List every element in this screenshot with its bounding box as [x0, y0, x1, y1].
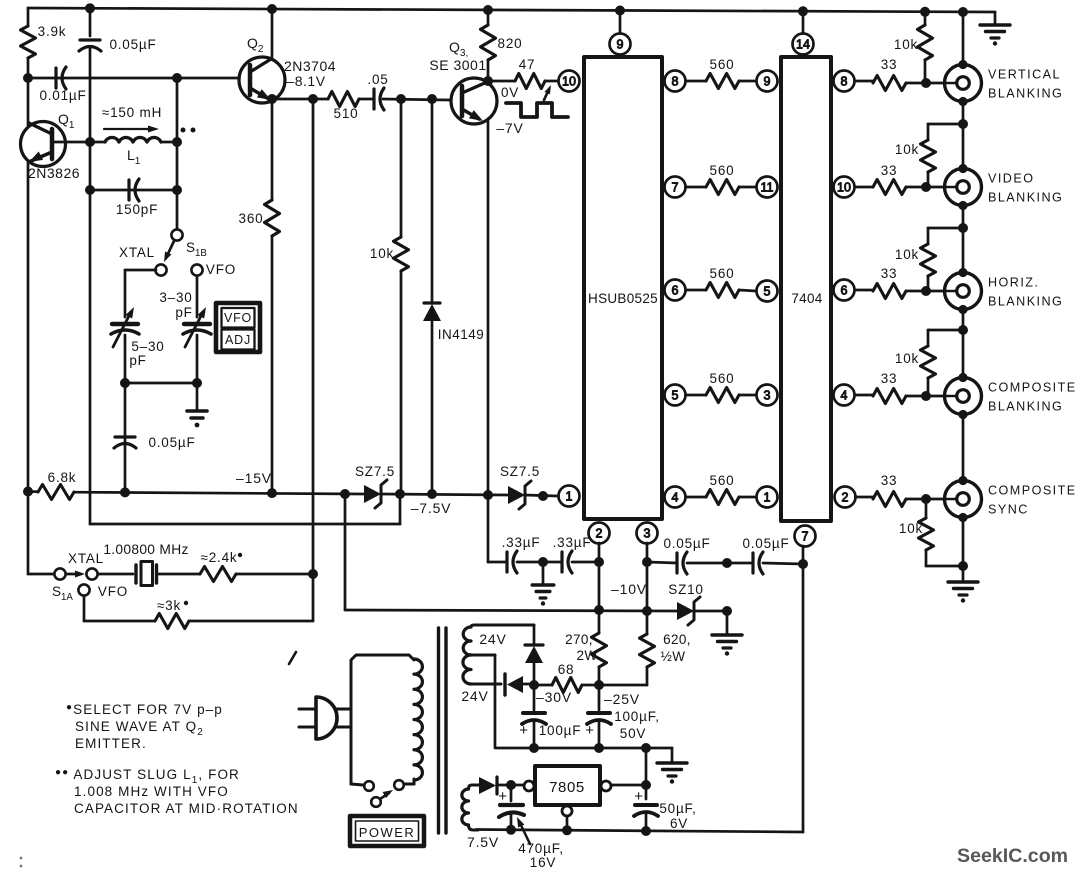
svg-text:1.008 MHz WITH VFO: 1.008 MHz WITH VFO [74, 784, 229, 799]
wire x646 column [645, 748, 648, 799]
pin 7 7404 bottom [795, 526, 816, 547]
pin 4 7404 [834, 385, 855, 406]
wire pin2 column [598, 543, 601, 633]
svg-text:HORIZ.: HORIZ. [988, 276, 1039, 290]
svg-text:10k: 10k [895, 351, 919, 366]
wire bnc chain 2-3 [962, 205, 965, 272]
svg-text:CAPACITOR AT MID·ROTATION: CAPACITOR AT MID·ROTATION [74, 801, 299, 816]
wire power line y610 [345, 494, 677, 611]
svg-text:10: 10 [562, 75, 576, 89]
svg-text:6: 6 [672, 284, 679, 298]
svg-text:–8.1V: –8.1V [286, 73, 325, 89]
svg-text:3: 3 [644, 527, 651, 541]
junction 150pF right [172, 185, 182, 195]
junction rail748 x534 [529, 743, 539, 753]
IC U2 7404 [781, 57, 831, 521]
IC U1 HSUB0525 [584, 57, 662, 519]
junction rail830 x646 [641, 826, 651, 836]
wire pin9 stub [619, 11, 622, 34]
svg-text:10k: 10k [894, 37, 918, 52]
junction 150pF left [85, 185, 95, 195]
wire Q1 emitter down [27, 162, 30, 492]
pin 2 HSUB bottom [589, 523, 610, 544]
waveform annotation [496, 85, 568, 136]
pin 6 HSUB [665, 280, 686, 301]
junction y610 x599 [594, 605, 604, 615]
svg-text:BLANKING: BLANKING [988, 295, 1063, 309]
svg-text:7: 7 [802, 530, 809, 544]
wire left to S1A [28, 492, 54, 575]
svg-text:½W: ½W [661, 649, 686, 664]
svg-text:2: 2 [842, 491, 849, 505]
wire pin3 column [646, 543, 649, 634]
resistor 33 row2 [856, 163, 945, 195]
wire Q2 collector [271, 9, 274, 58]
svg-text:9: 9 [617, 38, 624, 52]
resistor 33 row4 [856, 371, 945, 404]
wire x125 down [124, 383, 127, 492]
svg-text:0.01µF: 0.01µF [39, 88, 86, 103]
svg-text:–7.5V: –7.5V [411, 500, 452, 516]
svg-text:VFO: VFO [224, 311, 252, 325]
connector BNC COMPOSITE BLANKING [945, 373, 1077, 419]
wire VFO sw down [196, 276, 199, 317]
junction rail748 x646 [641, 743, 651, 753]
svg-text:16V: 16V [530, 855, 556, 870]
pin 10 HSUB0525 [559, 71, 580, 92]
wire pin14 stub [802, 11, 805, 33]
svg-text:7.5V: 7.5V [467, 834, 499, 850]
wire Q3 emitter [487, 119, 490, 495]
resistor 560 row4 [686, 371, 756, 403]
label -15V [236, 470, 272, 486]
zener SZ7.5 first [355, 464, 395, 508]
pin 5 HSUB [665, 385, 686, 406]
svg-text:BLANKING: BLANKING [988, 87, 1063, 101]
ground under .33uF [532, 562, 554, 606]
capacitor 50uF [634, 788, 697, 831]
svg-text:5–30: 5–30 [131, 339, 164, 354]
junction y99 x313 [308, 94, 318, 104]
junction -25V node [594, 680, 604, 690]
wire Q2 emitter node [271, 99, 274, 200]
svg-text:14: 14 [796, 38, 810, 52]
pin 3 7404 [757, 385, 778, 406]
wire -15V rail [28, 492, 364, 495]
svg-text:4: 4 [672, 491, 679, 505]
svg-text:50µF,: 50µF, [659, 801, 696, 816]
svg-text:VFO: VFO [98, 584, 128, 599]
junction 470uF [506, 780, 516, 790]
plug AC [299, 697, 351, 739]
wire 47 line [488, 80, 558, 83]
svg-text:5: 5 [672, 389, 679, 403]
svg-text:470µF,: 470µF, [518, 841, 564, 856]
junction 7805 out [641, 780, 651, 790]
svg-text:5: 5 [764, 285, 771, 299]
wire 68 to 620 [599, 684, 647, 687]
svg-text:SZ10: SZ10 [668, 582, 703, 597]
junction 10k out3 top [958, 223, 968, 233]
wire SZ10 to gnd [694, 611, 727, 634]
pin 9 HSUB top [610, 34, 631, 55]
resistor 3k [155, 598, 313, 629]
wire 3.9k to node [27, 58, 30, 78]
resistor 33 row5 [856, 473, 945, 507]
wire x401 down [400, 99, 403, 237]
transistor Q3 [429, 39, 497, 124]
svg-text:10k: 10k [895, 142, 919, 157]
connector BNC VIDEO BLANKING [945, 164, 1064, 210]
switch S1B [119, 229, 236, 277]
capacitor .33uF second [543, 535, 599, 573]
svg-text:IN4149: IN4149 [438, 327, 485, 342]
svg-text:.33µF: .33µF [502, 535, 541, 550]
svg-text:560: 560 [710, 57, 735, 72]
capacitor 100uF b [585, 685, 660, 748]
svg-text:0.05µF: 0.05µF [742, 536, 789, 551]
svg-text:0.05µF: 0.05µF [109, 37, 156, 52]
svg-text:8: 8 [672, 75, 679, 89]
pin 11 7404 [757, 177, 778, 198]
transformer secondary 7.5V [462, 785, 499, 850]
svg-text:24V: 24V [479, 631, 506, 647]
resistor 6.8k [38, 470, 76, 500]
svg-text:1.00800 MHz: 1.00800 MHz [103, 542, 188, 557]
resistor 510 [328, 92, 359, 122]
svg-text:BLANKING: BLANKING [988, 191, 1063, 205]
svg-text:68: 68 [558, 662, 575, 677]
transistor Q2 [239, 35, 336, 103]
svg-text:2N3704: 2N3704 [284, 58, 336, 74]
capacitor 0.05uF top [79, 37, 157, 52]
svg-text:360: 360 [239, 211, 264, 226]
ground below composite sync [948, 582, 978, 603]
capacitor 0.05uF a [647, 536, 727, 574]
wire Q3 820 top [487, 10, 490, 25]
svg-text:3–30: 3–30 [159, 290, 192, 305]
svg-text:+: + [498, 788, 508, 805]
svg-text:–7V: –7V [496, 120, 523, 136]
resistor 820 [481, 25, 523, 60]
resistor 10k out5 [899, 499, 963, 566]
wire x177 down [176, 78, 179, 229]
svg-text:≈3k: ≈3k [157, 598, 181, 613]
resistor 33 row3 [856, 266, 945, 299]
svg-text:9: 9 [764, 75, 771, 89]
pin 8 HSUB [665, 71, 686, 92]
svg-text:6V: 6V [670, 816, 688, 831]
junction rail830 x567 [562, 825, 572, 835]
svg-text:10k: 10k [895, 247, 919, 262]
svg-text:7805: 7805 [549, 779, 585, 796]
junction rail x28 [23, 487, 33, 497]
pin 7 HSUB [665, 177, 686, 198]
wire IN4149 to rail [431, 321, 434, 494]
junction varcap left [120, 378, 130, 388]
capacitor 0.05uF mid [114, 435, 196, 450]
svg-text:+: + [519, 722, 529, 739]
wire y99 [272, 99, 449, 100]
junction x313 y574 [308, 569, 318, 579]
label -25V [604, 691, 640, 707]
wire rail after zener1 [381, 494, 508, 495]
capacitor 150pF [90, 179, 177, 217]
svg-text:+: + [585, 722, 595, 739]
wire rail to pin1 [525, 495, 557, 496]
wire pin7 column [802, 546, 805, 832]
diode rect top [525, 625, 543, 685]
inductor L1 [90, 137, 177, 167]
pin 3 HSUB bottom [637, 523, 658, 544]
svg-text:33: 33 [881, 163, 898, 178]
junction rail x345 [340, 489, 350, 499]
svg-text:3.9k: 3.9k [38, 24, 67, 39]
svg-text:VIDEO: VIDEO [988, 172, 1034, 186]
junction top rail x925 [920, 7, 930, 17]
svg-text:VERTICAL: VERTICAL [988, 68, 1061, 82]
label 150mH [102, 105, 162, 133]
transistor Q1 [21, 111, 91, 181]
diode rect left [505, 674, 534, 695]
resistor 270 2W [565, 632, 606, 685]
resistor 10k out3 [895, 228, 963, 291]
svg-text:33: 33 [881, 57, 898, 72]
mark dots near L1 [181, 128, 196, 133]
svg-text:7: 7 [672, 181, 679, 195]
junction top rail x90 [85, 3, 95, 13]
resistor 560 row3 [686, 266, 756, 298]
svg-text:1: 1 [566, 490, 573, 504]
svg-text:COMPOSITE: COMPOSITE [988, 484, 1077, 498]
svg-text:–10V: –10V [611, 581, 647, 597]
svg-text:6.8k: 6.8k [48, 470, 77, 485]
label -10V [611, 581, 647, 597]
junction 10k out5 [958, 561, 968, 571]
wire 820 to collector [487, 60, 490, 83]
connector BNC COMPOSITE SYNC [945, 476, 1077, 522]
svg-text:33: 33 [881, 266, 898, 281]
junction 33 row5 [921, 494, 931, 504]
junction 0.05 caps mid [722, 558, 732, 568]
junction rail x432 [427, 489, 437, 499]
svg-text:560: 560 [710, 473, 735, 488]
wire bnc chain 3-4 [962, 309, 965, 377]
junction rail x125 [120, 487, 130, 497]
wire Q3em to cap line [488, 495, 507, 562]
wire top power rail [28, 8, 995, 12]
svg-text:POWER: POWER [359, 825, 416, 840]
svg-text:≈150 mH: ≈150 mH [102, 105, 162, 120]
crystal Y1 [98, 542, 200, 586]
svg-text:+: + [634, 788, 644, 805]
svg-text:–30V: –30V [536, 689, 572, 705]
svg-text:0.05µF: 0.05µF [148, 435, 195, 450]
node Q1 base-bias junction [23, 73, 33, 83]
junction top rail x963 [958, 7, 968, 17]
switch S1A [52, 551, 128, 603]
watermark SeekIC.com [957, 845, 1068, 867]
junction top rail x620 [615, 6, 625, 16]
wire left column upper [27, 8, 30, 26]
wire bnc chain 4-5 [962, 414, 965, 480]
junction Q3 collector [483, 76, 493, 86]
resistor 10k mid [370, 237, 409, 271]
connector BNC VERTICAL BLANKING [945, 60, 1064, 106]
svg-text:33: 33 [881, 473, 898, 488]
ground top right [980, 12, 1010, 46]
svg-text:2N3826: 2N3826 [28, 165, 80, 181]
junction -30V [529, 680, 539, 690]
pin 4 HSUB [665, 487, 686, 508]
svg-text:2: 2 [596, 527, 603, 541]
resistor 3.9k [21, 24, 67, 58]
pin 9 7404 [757, 71, 778, 92]
svg-text:560: 560 [710, 266, 735, 281]
pin 5 7404 [757, 281, 778, 302]
svg-text:6: 6 [841, 284, 848, 298]
junction y610 x647 [642, 606, 652, 616]
wire x432 down [431, 99, 434, 302]
wire 7805 out [612, 784, 646, 787]
wire x28 to Q1 collector [27, 78, 30, 126]
pin 14 7404 top [793, 34, 814, 55]
svg-text:3: 3 [764, 389, 771, 403]
svg-text:SZ7.5: SZ7.5 [500, 464, 540, 479]
note adjust [55, 767, 299, 816]
svg-text:VFO: VFO [206, 262, 236, 277]
svg-text:EMITTER.: EMITTER. [75, 736, 147, 751]
junction SZ10 top [722, 606, 732, 616]
capacitor .33uF first [502, 535, 541, 573]
svg-text:150pF: 150pF [116, 202, 158, 217]
svg-text:47: 47 [519, 57, 536, 72]
svg-text:0.05µF: 0.05µF [663, 536, 710, 551]
junction 10k out4 top [958, 325, 968, 335]
resistor 560 row1 [686, 57, 756, 89]
mark specks [20, 857, 23, 868]
junction pin7 cap wire [798, 559, 808, 569]
svg-text:.05: .05 [367, 72, 388, 87]
wire 10k to rail [400, 271, 403, 494]
regulator 7805 [524, 766, 611, 830]
junction y99 x432 [427, 94, 437, 104]
svg-text:–15V: –15V [236, 470, 272, 486]
pin 1 HSUB0525 [559, 486, 580, 507]
junction rail x488 [483, 490, 493, 500]
junction varcap right [192, 378, 202, 388]
svg-text:●SELECT FOR 7V p–p: ●SELECT FOR 7V p–p [66, 702, 223, 717]
junction Q2 emitter [267, 94, 277, 104]
label box VFO ADJ [216, 303, 260, 352]
wire XTAL sw to varcap [125, 270, 156, 317]
zener SZ10 [668, 582, 703, 625]
junction y99 x401 [396, 94, 406, 104]
wire bnc chain 1-2 [962, 101, 965, 168]
svg-text:7404: 7404 [791, 291, 822, 306]
wire bnc chain top [962, 12, 965, 64]
mark tick [289, 652, 296, 664]
svg-text:100µF,: 100µF, [614, 709, 660, 724]
junction top rail x488 [483, 5, 493, 15]
svg-text:10k: 10k [370, 246, 394, 261]
junction 33 row1 [921, 78, 931, 88]
svg-text:4: 4 [841, 389, 848, 403]
resistor 560 row5 [686, 473, 756, 505]
pin 10 7404 [834, 177, 855, 198]
pin 8 7404 [834, 71, 855, 92]
junction y78 x177 [172, 73, 182, 83]
zener SZ7.5 second [500, 464, 540, 509]
svg-text:0V: 0V [501, 85, 519, 100]
diode IN4149 [423, 303, 484, 342]
junction caps ground [538, 557, 548, 567]
pin 2 7404 [835, 487, 856, 508]
svg-text:SYNC: SYNC [988, 503, 1029, 517]
resistor 10k out1 [894, 12, 933, 83]
diode rect 7.5V [479, 777, 523, 794]
connector BNC HORIZ. BLANKING [945, 268, 1064, 314]
variable capacitor 3-30pF [159, 290, 211, 383]
svg-text:≈2.4k: ≈2.4k [201, 550, 238, 565]
svg-text:560: 560 [710, 163, 735, 178]
svg-text:2W: 2W [576, 648, 597, 663]
switch power [364, 780, 404, 807]
junction top rail x272 [267, 4, 277, 14]
svg-text:24V: 24V [461, 688, 488, 704]
capacitor .05 [367, 72, 388, 110]
wire return line y524 [90, 494, 400, 524]
transformer core [439, 628, 447, 833]
transformer primary [351, 655, 422, 785]
junction rail748 x599 [594, 743, 604, 753]
svg-text:33: 33 [881, 371, 898, 386]
wire gnd rail y748 [496, 748, 672, 762]
transformer secondary 24V [461, 625, 534, 748]
svg-text:pF: pF [129, 353, 146, 368]
junction rail830 x511 [506, 825, 516, 835]
wire bottom rail y830 [476, 830, 803, 833]
junction pin3 cap wire [642, 557, 652, 567]
resistor 10k out2 [895, 124, 963, 187]
capacitor 0.01uF [39, 67, 86, 103]
svg-text:10: 10 [837, 181, 851, 195]
junction 33 row4 [921, 391, 931, 401]
label POWER box [350, 816, 424, 846]
ground power rail [657, 763, 687, 784]
wire bnc chain 5-gnd [962, 517, 965, 581]
svg-text:100µF: 100µF [539, 723, 582, 738]
junction 33 row2 [921, 182, 931, 192]
svg-text:–25V: –25V [604, 691, 640, 707]
svg-text:1: 1 [764, 491, 771, 505]
svg-text:HSUB0525: HSUB0525 [588, 291, 658, 306]
svg-text:50V: 50V [620, 726, 646, 741]
wire x313 feedback [312, 99, 315, 621]
svg-text:.33µF: .33µF [553, 535, 592, 550]
svg-text:ADJ: ADJ [225, 333, 251, 347]
wire x90 down [89, 48, 92, 524]
wire varcap bottoms [125, 382, 197, 385]
svg-text:COMPOSITE: COMPOSITE [988, 381, 1077, 395]
svg-text:XTAL: XTAL [68, 551, 104, 566]
resistor 47 [515, 57, 545, 89]
resistor 2.4k [200, 550, 313, 582]
resistor 33 row1 [856, 57, 945, 91]
wire x90 upper [89, 8, 92, 36]
resistor 360 [239, 200, 280, 236]
svg-text:XTAL: XTAL [119, 245, 155, 260]
